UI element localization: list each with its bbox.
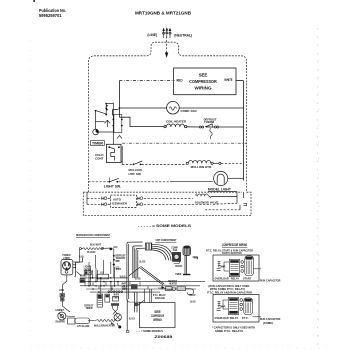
svg-text:BLACK: BLACK [135, 276, 141, 280]
svg-text:Z00689: Z00689 [154, 335, 172, 339]
svg-text:ORANGE: ORANGE [80, 274, 87, 278]
svg-text:COMP. FAN: COMP. FAN [181, 109, 198, 113]
svg-text:RED: RED [177, 78, 184, 82]
svg-text:MODEL LIGHT: MODEL LIGHT [208, 188, 231, 192]
svg-text:(SOME): (SOME) [263, 321, 273, 325]
svg-text:DEFROST: DEFROST [175, 264, 182, 268]
svg-text:CONT: CONT [95, 156, 104, 160]
svg-text:BLACK: BLACK [79, 255, 84, 259]
svg-text:START: START [243, 278, 252, 281]
svg-text:RED: RED [194, 256, 198, 260]
svg-text:THERMOSTAT: THERMOSTAT [116, 256, 126, 260]
svg-text:- - - - - = SOME MODELS: - - - - - = SOME MODELS [138, 224, 192, 228]
svg-text:BLK: BLK [114, 245, 118, 249]
svg-text:HEATER: HEATER [169, 282, 177, 286]
svg-text:SOLENOID VALVE: SOLENOID VALVE [195, 200, 218, 204]
svg-text:TIMER: TIMER [175, 272, 181, 276]
svg-text:COIL HEATER: COIL HEATER [87, 250, 96, 254]
svg-text:BLACK: BLACK [116, 267, 121, 271]
svg-text:COMPRESSOR WIRING: COMPRESSOR WIRING [222, 243, 247, 247]
svg-text:BLK WHT: BLK WHT [90, 242, 101, 246]
svg-text:FAN: FAN [173, 248, 178, 252]
svg-text:BLACK: BLACK [190, 299, 195, 303]
svg-text:MRT19GNB & MRT21GNB: MRT19GNB & MRT21GNB [135, 10, 192, 15]
svg-text:LIGHT SW.: LIGHT SW. [104, 185, 121, 189]
svg-text:TIMER: TIMER [92, 141, 104, 145]
svg-text:COMPRESSOR: COMPRESSOR [189, 79, 217, 84]
svg-text:BLACK: BLACK [139, 259, 145, 263]
svg-text:MULLION HTR.: MULLION HTR. [191, 165, 213, 169]
svg-text:RELAY: RELAY [230, 317, 239, 320]
svg-text:HTR. SW.: HTR. SW. [129, 172, 142, 176]
svg-text:AUTO ICE. WIRE: AUTO ICE. WIRE [77, 324, 90, 328]
svg-text:P.T.C. RELAY AND RUN CAPACITOR: P.T.C. RELAY AND RUN CAPACITOR [207, 290, 252, 294]
svg-text:WIRING: WIRING [153, 318, 162, 322]
svg-text:THERM: THERM [204, 120, 215, 124]
svg-text:5995259701: 5995259701 [39, 13, 62, 18]
svg-text:OVERLOAD: OVERLOAD [155, 296, 165, 300]
svg-text:SOME P.T.C. RELAYS: SOME P.T.C. RELAYS [215, 329, 243, 333]
svg-text:RELAY: RELAY [189, 293, 196, 297]
svg-text:CABINET: CABINET [55, 308, 64, 312]
svg-text:WIRING: WIRING [195, 86, 213, 91]
svg-text:OVERLOAD: OVERLOAD [215, 317, 229, 320]
svg-text:RUN CAPACITOR: RUN CAPACITOR [260, 278, 281, 282]
svg-text:P.T.C.: P.T.C. [242, 317, 249, 320]
svg-text:BLACK: BLACK [129, 317, 135, 321]
svg-text:LINE: LINE [59, 288, 64, 292]
svg-text:WHITE: WHITE [224, 78, 232, 82]
svg-text:OVERLOAD: OVERLOAD [215, 278, 229, 281]
svg-text:(NEUTRAL): (NEUTRAL) [174, 34, 192, 38]
svg-text:(LINE): (LINE) [147, 33, 157, 37]
svg-text:TIMER: TIMER [86, 306, 93, 310]
svg-text:MULLION HEATER: MULLION HEATER [94, 323, 115, 327]
svg-text:REFRIGERATOR COMPARTMENT: REFRIGERATOR COMPARTMENT [76, 233, 110, 237]
svg-text:RELAY: RELAY [231, 278, 240, 281]
svg-text:SEE: SEE [199, 73, 208, 78]
svg-text:- - - = SOME MODELS: - - - = SOME MODELS [136, 329, 163, 333]
svg-text:COIL HEATER: COIL HEATER [166, 119, 187, 123]
svg-text:COMP.: COMP. [218, 266, 226, 269]
svg-text:UNIT COMPARTMENT: UNIT COMPARTMENT [156, 238, 177, 242]
svg-text:START CAPACITOR: START CAPACITOR [222, 251, 242, 255]
svg-text:ICEMAKER: ICEMAKER [112, 202, 127, 206]
svg-text:COMP.: COMP. [218, 306, 226, 309]
svg-text:WHITE: WHITE [114, 292, 120, 296]
